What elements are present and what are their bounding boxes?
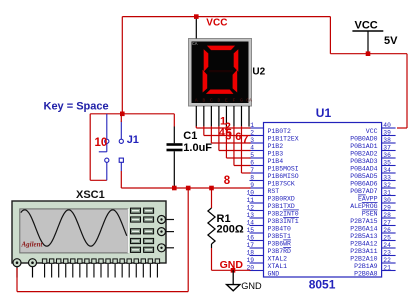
svg-text:29: 29 [383, 204, 391, 211]
svg-text:P2B5A13: P2B5A13 [350, 233, 377, 240]
wire top VCC rail (horizontal y=17) [122, 16, 330, 18]
svg-text:XTAL1: XTAL1 [268, 263, 288, 270]
svg-text:25: 25 [383, 234, 391, 241]
svg-text:10: 10 [95, 137, 108, 149]
svg-text:8051: 8051 [309, 277, 336, 291]
wire switch to RST [120, 171, 122, 188]
display CA corner label [192, 41, 198, 47]
svg-text:3: 3 [250, 137, 254, 144]
svg-text:8: 8 [250, 174, 254, 181]
net label GND red [220, 259, 244, 271]
wire VCC rail right drop [329, 17, 331, 54]
wire VCC rail left drop to J1 area [121, 17, 123, 114]
capacitor C1 [167, 127, 183, 187]
net label 10 [95, 137, 108, 149]
svg-text:26: 26 [383, 227, 391, 234]
display bottom pin stubs [196, 106, 249, 127]
wire net 3 display pin 3 to U1 pin 3 [211, 126, 250, 143]
svg-text:P3B5T1: P3B5T1 [268, 233, 292, 240]
svg-text:24: 24 [383, 242, 391, 249]
svg-text:P2B0A8: P2B0A8 [354, 270, 378, 277]
svg-text:P0B6AD6: P0B6AD6 [350, 180, 377, 187]
svg-text:1.0uF: 1.0uF [183, 142, 212, 154]
wire RST to R1 [211, 188, 213, 208]
svg-text:P3B2INT0: P3B2INT0 [268, 210, 299, 217]
svg-text:PSEN: PSEN [362, 210, 378, 217]
label GND black [241, 281, 262, 291]
svg-text:7: 7 [250, 167, 254, 174]
wire VCC branch to C1 (y=113.8) [90, 113, 174, 115]
U1 pin labels [268, 128, 378, 277]
svg-text:21: 21 [383, 264, 391, 271]
label U1 [316, 106, 332, 120]
svg-text:XTAL2: XTAL2 [268, 255, 288, 262]
svg-text:40: 40 [383, 122, 391, 129]
wire net 2 display pin 2 to U1 pin 2 [204, 126, 251, 136]
label U2 [252, 66, 265, 77]
svg-text:34: 34 [383, 167, 391, 174]
svg-text:P2B7A15: P2B7A15 [350, 218, 377, 225]
svg-text:CA: CA [192, 41, 198, 47]
svg-text:P0B7AD7: P0B7AD7 [350, 188, 377, 195]
svg-text:6: 6 [250, 159, 254, 166]
svg-text:39: 39 [383, 129, 391, 136]
display segments showing 0 [203, 46, 239, 94]
svg-text:D: D [218, 97, 221, 103]
svg-text:GND: GND [241, 281, 262, 291]
svg-text:12: 12 [246, 204, 254, 211]
svg-text:CA: CA [246, 97, 252, 103]
node junction scope-RST [186, 186, 191, 191]
svg-text:33: 33 [383, 174, 391, 181]
svg-text:P1B4: P1B4 [268, 158, 284, 165]
wire net 4 display pin 4 to U1 pin 4 [219, 126, 251, 151]
value 1.0uF [183, 142, 212, 154]
net label VCC (red, near display) [206, 17, 227, 28]
svg-text:P0B1AD1: P0B1AD1 [350, 143, 377, 150]
svg-text:3: 3 [225, 131, 231, 143]
svg-text:U1: U1 [316, 106, 332, 120]
svg-text:P3B4T0: P3B4T0 [268, 225, 292, 232]
svg-text:F: F [233, 97, 236, 103]
seven-segment display U2 body [189, 39, 252, 107]
node junction A at J1/VCC drop [120, 112, 125, 117]
node junction on top rail at display CA pin [194, 14, 199, 19]
switch J1 [99, 114, 124, 181]
oscilloscope XSC1 body [12, 201, 166, 263]
svg-text:P1B0T2: P1B0T2 [268, 128, 292, 135]
oscilloscope knobs [158, 216, 175, 252]
svg-text:P1B6MISO: P1B6MISO [268, 173, 299, 180]
node junction R1-RST [209, 186, 214, 191]
svg-text:P0B5AD5: P0B5AD5 [350, 173, 377, 180]
svg-text:P2B4A12: P2B4A12 [350, 240, 377, 247]
svg-text:31: 31 [383, 189, 391, 196]
svg-text:2: 2 [250, 129, 254, 136]
svg-text:5V: 5V [384, 35, 398, 47]
label R1 [217, 213, 231, 225]
svg-text:35: 35 [383, 159, 391, 166]
svg-text:XSC1: XSC1 [76, 189, 105, 201]
svg-text:P1B7SCK: P1B7SCK [268, 180, 295, 187]
svg-text:8: 8 [224, 175, 231, 187]
svg-text:C1: C1 [183, 130, 197, 142]
svg-text:28: 28 [383, 212, 391, 219]
node junction ground [231, 268, 236, 273]
ground symbol [227, 270, 240, 291]
svg-text:P1B1T2EX: P1B1T2EX [268, 135, 299, 142]
svg-text:VCC: VCC [206, 17, 227, 28]
svg-text:A: A [195, 97, 198, 103]
svg-text:EAVPP: EAVPP [358, 195, 378, 202]
wire J1 loop left [89, 114, 91, 181]
svg-text:Agilent: Agilent [21, 241, 44, 249]
node junction C1-RST [172, 186, 177, 191]
svg-text:10: 10 [246, 189, 254, 196]
svg-text:15: 15 [246, 227, 254, 234]
svg-text:P3B7RD: P3B7RD [268, 248, 292, 255]
svg-text:GND: GND [220, 259, 244, 271]
label XSC1 [76, 189, 105, 201]
svg-text:U2: U2 [252, 66, 265, 77]
svg-text:6: 6 [235, 131, 241, 143]
svg-text:G: G [240, 97, 243, 103]
svg-text:P0B2AD2: P0B2AD2 [350, 150, 377, 157]
label Key = Space [44, 101, 109, 113]
power VCC 5V supply symbol [352, 19, 398, 53]
svg-text:P2B1A9: P2B1A9 [354, 263, 378, 270]
svg-text:P1B2: P1B2 [268, 143, 284, 150]
svg-text:9: 9 [250, 182, 254, 189]
svg-text:C: C [210, 97, 213, 103]
net label 8 [224, 175, 231, 187]
svg-text:P2B2A10: P2B2A10 [350, 255, 377, 262]
svg-text:P3B6WR: P3B6WR [268, 240, 292, 247]
wire VCC supply to pin 40 [397, 54, 407, 128]
svg-text:27: 27 [383, 219, 391, 226]
svg-text:30: 30 [383, 197, 391, 204]
wire J1 loop bottom [90, 179, 107, 181]
oscilloscope screen with waveform [20, 209, 129, 253]
wire C1 top lead red [173, 114, 175, 127]
svg-text:32: 32 [383, 182, 391, 189]
svg-text:RST: RST [268, 188, 280, 195]
svg-text:36: 36 [383, 152, 391, 159]
svg-text:18: 18 [246, 249, 254, 256]
label J1 [127, 134, 139, 146]
oscilloscope buttons [131, 208, 154, 252]
svg-text:VCC: VCC [366, 128, 378, 135]
svg-text:ALEPROG: ALEPROG [350, 203, 377, 210]
svg-text:38: 38 [383, 137, 391, 144]
svg-text:4: 4 [250, 144, 254, 151]
wire net 1 display pin 1 to U1 pin 1 [196, 126, 250, 128]
svg-text:P0B4AD4: P0B4AD4 [350, 165, 377, 172]
wire scope channel to RST net [17, 188, 188, 292]
svg-text:23: 23 [383, 249, 391, 256]
svg-text:11: 11 [246, 197, 254, 204]
svg-text:Key = Space: Key = Space [44, 101, 109, 113]
display pin name row [195, 97, 252, 103]
node junction under VCC supply [366, 51, 371, 56]
wire net 7 display pin 7 to U1 pin 7 [241, 126, 250, 173]
svg-text:P3B3INT1: P3B3INT1 [268, 218, 299, 225]
svg-text:P2B6A14: P2B6A14 [350, 225, 377, 232]
svg-text:P0B0AD0: P0B0AD0 [350, 135, 377, 142]
svg-text:GND: GND [268, 270, 280, 277]
svg-text:B: B [202, 97, 205, 103]
svg-text:17: 17 [246, 242, 254, 249]
wire net 5 display pin 5 to U1 pin 5 [226, 126, 250, 158]
svg-text:E: E [225, 97, 228, 103]
svg-text:J1: J1 [127, 134, 139, 146]
svg-text:P1B3: P1B3 [268, 150, 284, 157]
U1 pin numbers [246, 122, 391, 271]
value 200ohm [217, 224, 244, 236]
wire GND rail y=270.5 [212, 269, 251, 271]
wire RST net y=188 [121, 187, 250, 189]
svg-text:19: 19 [246, 257, 254, 264]
resistor R1 [208, 208, 215, 248]
display CA top pin [195, 19, 197, 39]
svg-text:37: 37 [383, 144, 391, 151]
svg-text:VCC: VCC [355, 19, 378, 31]
net labels 1-7 [219, 115, 249, 145]
svg-text:P3B1TXD: P3B1TXD [268, 203, 295, 210]
svg-text:P1B5MOSI: P1B5MOSI [268, 165, 299, 172]
svg-text:5: 5 [250, 152, 254, 159]
svg-text:P3B0RXD: P3B0RXD [268, 195, 295, 202]
wire net 6 display pin 6 to U1 pin 6 [234, 126, 251, 166]
svg-text:200Ω: 200Ω [217, 224, 244, 236]
label 8051 [309, 277, 336, 291]
svg-text:13: 13 [246, 212, 254, 219]
wire R1 to GND rail [211, 248, 213, 270]
svg-text:7: 7 [242, 134, 248, 146]
oscilloscope pin header [42, 259, 159, 278]
U1 pin stubs [250, 128, 396, 271]
svg-text:1: 1 [250, 122, 254, 129]
svg-text:14: 14 [246, 219, 254, 226]
svg-text:P0B3AD3: P0B3AD3 [350, 158, 377, 165]
oscilloscope input connectors [13, 259, 37, 278]
wire VCC supply horizontal [330, 53, 407, 55]
svg-text:22: 22 [383, 257, 391, 264]
wire junction A to switch [120, 114, 122, 122]
label C1 [183, 130, 197, 142]
IC U1 8051 body [264, 123, 382, 278]
svg-text:16: 16 [246, 234, 254, 241]
svg-text:P2B3A11: P2B3A11 [350, 248, 377, 255]
